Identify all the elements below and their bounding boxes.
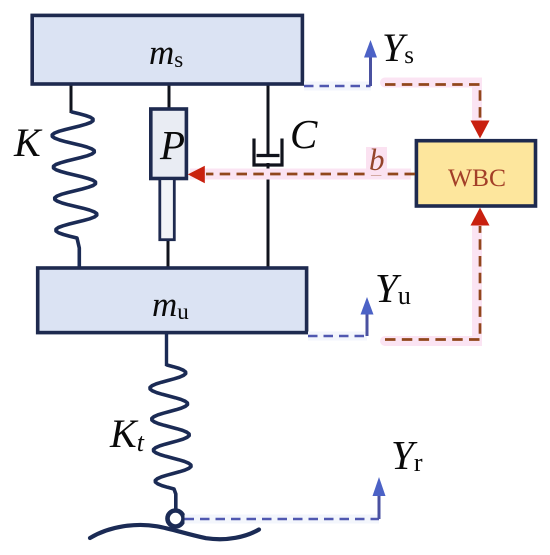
halo behind b [366, 147, 387, 175]
mass mu box [38, 268, 307, 333]
wire: actuator rod to unsprung mass [167, 238, 170, 268]
svg-text:Yr: Yr [391, 432, 423, 478]
wire: sprung mass to actuator P [168, 84, 171, 110]
red dashed line Yu to WBC [385, 226, 480, 340]
wire: sprung mass to spring K [70, 84, 73, 113]
mass ms box [32, 15, 302, 84]
svg-text:K: K [13, 120, 43, 165]
arrow Ys [369, 55, 372, 86]
wire: damper to unsprung mass [267, 163, 270, 268]
red dashed line b: WBC to actuator [206, 173, 415, 176]
svg-text:Kt: Kt [109, 411, 145, 457]
road contact ring [168, 511, 184, 527]
svg-text:WBC: WBC [448, 163, 506, 192]
halo for red Ys line [385, 83, 477, 122]
halo for Yu dashes [308, 332, 367, 341]
blue dashed line Ys [304, 85, 371, 88]
svg-text:Yu: Yu [375, 265, 411, 311]
red arrow into WBC top [471, 121, 490, 139]
halo for red Yu line [385, 226, 477, 341]
svg-text:Ys: Ys [382, 25, 414, 70]
actuator P body [151, 109, 187, 179]
tire spring Kt [150, 365, 191, 510]
WBC block [416, 141, 535, 206]
blue dashed line Yr [185, 518, 380, 521]
red arrow into actuator [188, 166, 205, 183]
red arrow into WBC bottom [471, 208, 490, 226]
svg-text:P: P [159, 122, 185, 168]
arrow Yu [366, 312, 369, 336]
red dashed line Ys to WBC [385, 85, 480, 121]
road wavy line [90, 525, 259, 539]
svg-text:b: b [369, 142, 385, 177]
damper piston plate [257, 154, 280, 157]
halo for Yr dashes [185, 515, 380, 524]
spring K [52, 112, 97, 267]
halo for Ys dashes [304, 82, 371, 91]
wire: unsprung mass to tire spring [165, 334, 168, 366]
actuator rod [160, 179, 175, 240]
svg-text:C: C [290, 111, 318, 157]
blue dashed line Yu [308, 335, 367, 338]
halo for b line [190, 169, 411, 180]
wire: sprung mass to damper C [267, 84, 270, 156]
arrow Yr [378, 494, 381, 519]
damper cup C [254, 139, 282, 166]
